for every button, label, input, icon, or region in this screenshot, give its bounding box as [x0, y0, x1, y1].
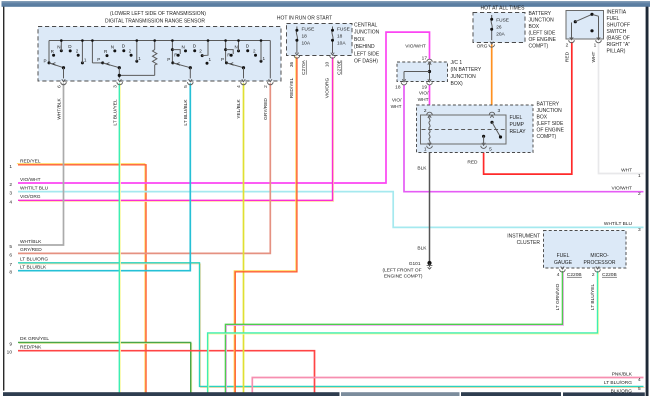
- svg-text:RIGHT “A”: RIGHT “A”: [607, 42, 631, 48]
- fuel pump relay box: [421, 115, 507, 144]
- wire LT BLU/BLK from left pin 8 up to sensor pin 5: [18, 83, 190, 271]
- J/C 1 internal wires: [429, 64, 431, 81]
- svg-text:2: 2: [199, 48, 202, 53]
- inertia switch arm: [575, 14, 592, 21]
- svg-text:FUEL: FUEL: [557, 253, 570, 259]
- fuse 18 element at x=296.9: [296, 27, 298, 31]
- svg-text:FUSE: FUSE: [302, 26, 315, 32]
- svg-text:JUNCTION: JUNCTION: [451, 74, 477, 80]
- svg-text:GRY/RED: GRY/RED: [263, 98, 269, 120]
- svg-text:LT BLU/BLK: LT BLU/BLK: [183, 99, 189, 126]
- J/C 1 pin 19 connector: [427, 82, 433, 85]
- svg-text:WHT/BLK: WHT/BLK: [20, 239, 42, 245]
- svg-text:BOX: BOX: [354, 37, 365, 43]
- wire RED from relay pin 5 to inertia switch pin 2: [484, 42, 572, 174]
- svg-text:DK GRN/YEL: DK GRN/YEL: [20, 336, 49, 342]
- svg-text:HOT IN RUN OR START: HOT IN RUN OR START: [277, 16, 332, 22]
- svg-text:1: 1: [9, 164, 12, 170]
- sensor resistor bottom wire to pin 3 node: [119, 74, 154, 76]
- sensor bus drop to pin 2: [269, 41, 271, 79]
- bottom connector bar segment 3: [461, 392, 561, 396]
- wire RED/YEL from left pin 1 down to bottom connector: [17, 164, 145, 394]
- svg-text:WHT: WHT: [418, 97, 429, 103]
- svg-text:RED: RED: [564, 51, 570, 62]
- svg-text:BOX): BOX): [451, 81, 464, 87]
- svg-text:JUNCTION: JUNCTION: [537, 108, 563, 114]
- svg-text:RED/YEL: RED/YEL: [20, 159, 41, 165]
- ground G101 symbol: [427, 261, 431, 265]
- svg-text:BATTERY: BATTERY: [537, 102, 560, 108]
- svg-text:ORG: ORG: [477, 44, 488, 50]
- svg-text:COMPT): COMPT): [529, 44, 549, 50]
- relay pin 5 connector: [481, 146, 487, 149]
- svg-text:J/C 1: J/C 1: [451, 60, 463, 66]
- sensor switch group 3 contact P: [171, 61, 174, 64]
- svg-text:CLUSTER: CLUSTER: [517, 240, 541, 246]
- svg-text:WHT: WHT: [591, 51, 597, 62]
- sensor switch group 1 contact 1: [81, 61, 84, 64]
- wire WHT/LT BLU from left pin 3 to right pin 3: [18, 192, 644, 228]
- wire ORG from fuse 26 down to fuel pump relay pin 3: [491, 44, 493, 113]
- svg-text:VIO/WHT: VIO/WHT: [20, 177, 41, 183]
- fuse 18 element at x=332.5: [332, 27, 334, 31]
- sensor pin 5 connector: [188, 82, 194, 85]
- right page border: [646, 7, 649, 396]
- svg-text:1: 1: [209, 57, 212, 62]
- svg-text:(IN BATTERY: (IN BATTERY: [451, 67, 482, 73]
- svg-text:OF DASH): OF DASH): [354, 59, 378, 65]
- svg-text:OF ENGINE: OF ENGINE: [529, 37, 557, 43]
- sensor switch group 1 contact 2: [77, 54, 80, 57]
- svg-text:4: 4: [9, 199, 12, 205]
- sensor switch group 3 contact 1: [206, 62, 209, 65]
- sensor switch group 2 contact 1: [135, 60, 138, 63]
- bottom connector bar segment 2: [341, 392, 460, 396]
- svg-text:5: 5: [183, 85, 189, 88]
- svg-text:3: 3: [112, 85, 118, 88]
- sensor internal bus wire: [49, 40, 270, 42]
- svg-text:FUSE: FUSE: [337, 26, 350, 32]
- sensor pin 4 connector: [241, 82, 247, 85]
- svg-text:LT BLU/YEL: LT BLU/YEL: [112, 99, 118, 126]
- svg-text:(LEFT SIDE: (LEFT SIDE: [537, 121, 565, 127]
- sensor switch group 3 contact D: [193, 49, 196, 52]
- sensor switch group 1 wiper arm: [49, 63, 64, 68]
- svg-text:17: 17: [422, 55, 428, 61]
- svg-text:4: 4: [557, 272, 560, 278]
- svg-text:C270A: C270A: [301, 59, 307, 74]
- svg-text:LT GRN/VIO: LT GRN/VIO: [555, 283, 561, 310]
- sensor switch group 1 contact P: [48, 61, 51, 64]
- svg-text:2: 2: [566, 42, 569, 48]
- svg-text:VIO/: VIO/: [392, 97, 402, 103]
- svg-text:BOX: BOX: [529, 24, 540, 30]
- sensor switch group 2 contact D: [122, 49, 125, 52]
- svg-text:1: 1: [594, 42, 597, 48]
- svg-text:CENTRAL: CENTRAL: [354, 23, 378, 29]
- sensor switch group 3 contact 2: [201, 54, 204, 57]
- sensor switch group 2 contact N: [113, 49, 116, 52]
- svg-text:4: 4: [638, 377, 641, 383]
- sensor switch group 4 feed wire: [225, 41, 227, 63]
- sensor switch group 4 contact P: [225, 61, 228, 64]
- inertia pin 1 connector: [596, 40, 602, 43]
- svg-text:LT BLU/BLK: LT BLU/BLK: [20, 265, 47, 271]
- svg-text:DIGITAL TRANSMISSION RANGE SEN: DIGITAL TRANSMISSION RANGE SENSOR: [105, 18, 205, 24]
- sensor switch group 1 contact R: [52, 54, 55, 57]
- svg-text:2: 2: [592, 272, 595, 278]
- svg-text:FUSE: FUSE: [496, 17, 509, 23]
- svg-text:MICRO-: MICRO-: [590, 253, 609, 259]
- left page border: [3, 7, 4, 391]
- sensor pin 6 connector: [61, 82, 67, 85]
- svg-text:2: 2: [76, 49, 79, 54]
- svg-text:WHT/BLK: WHT/BLK: [57, 98, 63, 120]
- svg-text:PILLAR): PILLAR): [607, 49, 626, 55]
- svg-text:PNK/BLK: PNK/BLK: [612, 371, 633, 377]
- wire RED/PNK from left pin 10 down to bottom connector: [18, 351, 315, 395]
- svg-text:LEFT SIDE: LEFT SIDE: [354, 51, 380, 57]
- cluster pin 2 connector: [595, 269, 601, 272]
- wire LT BLU/YEL from cluster pin 2 down to bottom connector: [209, 272, 599, 395]
- svg-text:1: 1: [638, 173, 641, 179]
- wire BLK from relay pin 1 down to ground G101: [429, 148, 431, 263]
- sensor switch group 4 contact R bracket: [226, 50, 234, 54]
- sensor resistor: [154, 41, 156, 50]
- svg-text:HOT AT ALL TIMES: HOT AT ALL TIMES: [481, 6, 526, 12]
- svg-text:1: 1: [424, 147, 427, 153]
- svg-text:(LOWER LEFT SIDE OF TRANSMISSI: (LOWER LEFT SIDE OF TRANSMISSION): [110, 11, 206, 17]
- svg-text:4: 4: [236, 85, 242, 88]
- svg-text:G101: G101: [409, 261, 421, 267]
- svg-text:6: 6: [9, 252, 12, 258]
- sensor switch group 2 contact 2: [130, 54, 133, 57]
- svg-text:VIO/WHT: VIO/WHT: [405, 43, 426, 49]
- svg-text:N: N: [235, 45, 238, 50]
- battery junction box dashed outline: [417, 105, 534, 153]
- hot at all times fuse box: [473, 13, 525, 43]
- sensor switch group 3 pivot: [189, 66, 192, 69]
- sensor switch group 2 wiper arm: [103, 63, 120, 68]
- svg-text:N: N: [57, 44, 60, 49]
- svg-text:BLK: BLK: [417, 165, 427, 171]
- relay switch contacts: [490, 121, 493, 124]
- wire VIO/WHT from left pin 2 up to J/C 1 pin 17: [18, 32, 430, 183]
- wire RED/YEL from fuse 18 C270A down to bottom connector: [234, 56, 296, 393]
- svg-text:10: 10: [7, 350, 13, 356]
- svg-text:C270E: C270E: [336, 60, 342, 75]
- sensor switch group 3 wiper arm: [173, 63, 191, 68]
- svg-text:LT BLU/ORG: LT BLU/ORG: [20, 257, 48, 263]
- svg-text:2: 2: [638, 191, 641, 197]
- wire WHT/BLK from left pin 5 up to sensor pin 6: [18, 83, 64, 245]
- sensor switch group 1 feed wire: [48, 41, 50, 63]
- sensor switch group 2 pivot: [118, 66, 121, 69]
- svg-text:9: 9: [9, 341, 12, 347]
- svg-text:3: 3: [498, 108, 501, 114]
- sensor switch group 4 contact N: [237, 49, 240, 52]
- wire VIO/ORG from left pin 4 up to fuse 18 C270E: [19, 58, 334, 201]
- svg-text:36: 36: [289, 62, 295, 68]
- svg-text:COMPT): COMPT): [537, 134, 557, 140]
- svg-text:18: 18: [302, 33, 308, 39]
- svg-text:2: 2: [424, 108, 427, 114]
- svg-text:WHT: WHT: [621, 167, 632, 173]
- svg-text:(BEHIND: (BEHIND: [354, 44, 375, 50]
- svg-text:18: 18: [337, 33, 343, 39]
- svg-text:8: 8: [9, 270, 12, 276]
- wire YEL/BLK sensor pin 4 down to bottom connector: [243, 83, 245, 394]
- sensor switch group 1 contact N: [60, 49, 63, 52]
- svg-text:PUMP: PUMP: [510, 122, 525, 128]
- instrument cluster box: [544, 231, 627, 269]
- svg-text:INSTRUMENT: INSTRUMENT: [507, 233, 540, 239]
- svg-text:PROCESSOR: PROCESSOR: [584, 260, 616, 266]
- svg-text:5: 5: [638, 386, 641, 392]
- svg-text:LT BLU/YEL: LT BLU/YEL: [590, 284, 596, 311]
- sensor pin 2 connector: [268, 82, 274, 85]
- sensor switch group 2 contact R: [106, 54, 109, 57]
- sensor switch group 1 contact D: [69, 49, 72, 52]
- svg-text:VIO/ORG: VIO/ORG: [20, 194, 41, 200]
- inertia switch open contact: [590, 29, 593, 32]
- wire VIO/WHT from J/C 1 pin 19 to relay pin 2: [429, 85, 431, 113]
- svg-text:P: P: [167, 57, 170, 62]
- wire WHT from inertia switch pin 1 to right pin 1: [599, 42, 644, 174]
- svg-text:3: 3: [9, 191, 12, 197]
- bottom connector bar segment 4: [563, 392, 645, 396]
- relay coil: [429, 116, 430, 144]
- sensor switch group 2 contact P: [101, 61, 104, 64]
- svg-text:JUNCTION: JUNCTION: [529, 18, 555, 24]
- sensor switch group 4 pivot: [242, 66, 245, 69]
- svg-text:RED/YEL: RED/YEL: [289, 77, 295, 98]
- relay linkage dashed line: [422, 129, 506, 131]
- svg-text:1: 1: [138, 56, 141, 61]
- svg-text:BLK: BLK: [417, 246, 427, 252]
- fuse 26 element: [491, 15, 493, 19]
- wire LT BLU/YEL sensor pin 3 down to bottom connector: [119, 83, 121, 394]
- wire VIO/WHT from J/C 1 pin 18 to right pin 2: [404, 85, 644, 192]
- svg-text:OF ENGINE: OF ENGINE: [537, 128, 565, 134]
- svg-text:2: 2: [253, 49, 256, 54]
- central junction box fuse box: [287, 24, 353, 56]
- svg-text:FUEL: FUEL: [510, 115, 523, 121]
- svg-text:3: 3: [638, 227, 641, 233]
- svg-text:RED: RED: [467, 159, 478, 165]
- svg-text:10: 10: [324, 62, 330, 68]
- svg-text:19: 19: [422, 84, 428, 90]
- svg-text:P: P: [44, 59, 47, 64]
- svg-text:LT BLU/ORG: LT BLU/ORG: [604, 380, 632, 386]
- svg-text:(LEFT FRONT OF: (LEFT FRONT OF: [383, 267, 422, 273]
- wire GRY/RED from left pin 6 up to sensor pin 2: [18, 83, 270, 253]
- sensor switch group 3 contact R bracket: [172, 50, 180, 54]
- svg-text:BOX: BOX: [537, 115, 548, 121]
- svg-text:N: N: [111, 45, 114, 50]
- svg-text:N: N: [182, 45, 185, 50]
- svg-text:VIO/WHT: VIO/WHT: [611, 186, 632, 192]
- svg-text:SHUTOFF: SHUTOFF: [607, 23, 631, 29]
- sensor switch group 4 wiper arm: [227, 63, 244, 68]
- junction connector J/C 1 box: [397, 62, 448, 82]
- svg-text:2: 2: [263, 85, 269, 88]
- relay pin 1 connector: [427, 146, 433, 149]
- sensor switch group 4 contact 2: [254, 54, 257, 57]
- sensor switch group 3 contact N: [184, 49, 187, 52]
- svg-text:7: 7: [9, 262, 12, 268]
- svg-text:2: 2: [9, 182, 12, 188]
- svg-text:WHT/LT BLU: WHT/LT BLU: [20, 185, 49, 191]
- svg-text:26: 26: [496, 24, 502, 30]
- svg-text:JUNCTION: JUNCTION: [354, 30, 380, 36]
- svg-text:SWITCH: SWITCH: [607, 29, 627, 35]
- svg-text:P: P: [221, 57, 224, 62]
- svg-text:ENGINE COMPT): ENGINE COMPT): [384, 274, 423, 280]
- relay pin 3 connector: [489, 112, 495, 115]
- wire LT BLU/ORG from left pin 7 to right pin 5: [19, 264, 645, 388]
- svg-text:VIO/ORG: VIO/ORG: [324, 77, 330, 98]
- sensor switch group 3 feed wire: [171, 41, 173, 63]
- sensor switch group 1 pivot: [62, 66, 65, 69]
- svg-text:(LEFT SIDE: (LEFT SIDE: [529, 31, 557, 37]
- svg-text:5: 5: [9, 244, 12, 250]
- svg-text:18: 18: [395, 84, 401, 90]
- svg-text:10A: 10A: [302, 40, 311, 46]
- svg-text:RED/PNK: RED/PNK: [20, 345, 42, 351]
- svg-text:6: 6: [57, 85, 63, 88]
- sensor pin 3 connector: [117, 82, 123, 85]
- svg-text:BATTERY: BATTERY: [529, 11, 552, 17]
- relay pin 2 connector: [427, 112, 433, 115]
- svg-text:2: 2: [129, 49, 132, 54]
- inertia fuel shutoff switch box: [566, 11, 604, 40]
- svg-text:5: 5: [489, 147, 492, 153]
- inertia pin 2 connector: [569, 40, 575, 43]
- svg-text:WHT: WHT: [391, 104, 402, 110]
- svg-text:20A: 20A: [496, 31, 505, 37]
- inertia switch pin 1 stub: [598, 16, 600, 39]
- svg-text:YEL/BLK: YEL/BLK: [236, 98, 242, 118]
- wire DK GRN/YEL from left pin 9 down to bottom connector: [19, 343, 192, 395]
- sensor switch group 4 contact 1: [260, 60, 263, 63]
- digital transmission range sensor box: [38, 27, 281, 82]
- svg-text:INERTIA: INERTIA: [607, 10, 627, 16]
- J/C 1 pin 18 connector: [401, 82, 407, 85]
- svg-text:WHT/LT BLU: WHT/LT BLU: [604, 221, 633, 227]
- svg-text:1: 1: [84, 58, 87, 63]
- svg-text:VIO/: VIO/: [419, 90, 429, 96]
- cluster pin 4 connector: [560, 269, 566, 272]
- wire PNK/BLK from bottom connector to right pin 4: [252, 378, 643, 395]
- sensor switch group 2 feed wire: [91, 41, 93, 63]
- J/C 1 pin 17 connector: [427, 59, 433, 62]
- svg-text:P: P: [97, 57, 100, 62]
- svg-text:GRY/RED: GRY/RED: [20, 247, 42, 253]
- inertia switch pin 2 stub: [571, 23, 573, 40]
- svg-text:GAUGE: GAUGE: [554, 260, 573, 266]
- svg-text:(BASE OF: (BASE OF: [607, 36, 630, 42]
- svg-text:FUEL: FUEL: [607, 16, 620, 22]
- svg-text:RELAY: RELAY: [510, 129, 527, 135]
- wire LT GRN/VIO from cluster pin 4 down to bottom connector: [227, 272, 564, 395]
- bottom connector bar segment 1: [3, 392, 340, 396]
- sensor switch group 3 contact 2 bus link: [202, 41, 208, 56]
- svg-text:1: 1: [263, 56, 266, 61]
- svg-text:10A: 10A: [337, 40, 346, 46]
- sensor switch group 4 contact D: [246, 49, 249, 52]
